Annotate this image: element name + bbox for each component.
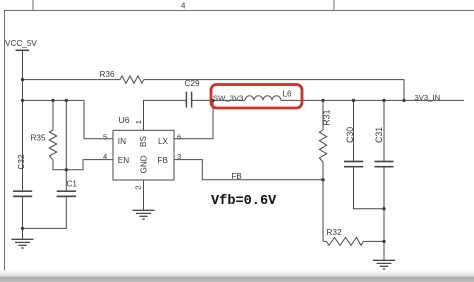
- wire ground stub left: [22, 228, 24, 238]
- svg-text:4: 4: [181, 2, 186, 11]
- wire VCC to left components row: [23, 99, 85, 101]
- highlight box around SW_3V3 / L6: [211, 85, 302, 109]
- wire VCC to R36: [23, 79, 121, 81]
- wire C1 vertical: [65, 100, 67, 190]
- wire LX pin 6 up to SW node: [174, 100, 213, 138]
- svg-text:IN: IN: [118, 137, 126, 146]
- svg-text:Vfb=0.6V: Vfb=0.6V: [211, 194, 277, 209]
- wire R35 bottom to EN step: [53, 160, 113, 170]
- resistor R32: [323, 237, 384, 245]
- wire C29 to inductor: [192, 99, 245, 101]
- window bottom edge band: [0, 271, 474, 282]
- wire C31 bottom down to ground: [383, 167, 385, 260]
- svg-text:U6: U6: [119, 115, 130, 125]
- junction R35 top: [51, 99, 54, 102]
- svg-text:3V3_IN: 3V3_IN: [415, 93, 441, 102]
- wire C30 top stub: [353, 100, 355, 161]
- wire down to IN pin: [84, 100, 113, 138]
- resistor R31: [319, 130, 326, 162]
- wire C31 top stub: [383, 100, 385, 161]
- junction SW node / LX: [211, 99, 214, 102]
- svg-text:FB: FB: [158, 156, 169, 165]
- svg-text:BS: BS: [139, 136, 148, 147]
- svg-text:3: 3: [177, 152, 181, 161]
- capacitor C29: [186, 92, 191, 108]
- power symbol VCC_5V: [16, 49, 30, 51]
- svg-text:6: 6: [177, 132, 181, 141]
- junction VCC/R36: [21, 78, 24, 81]
- svg-text:R35: R35: [31, 133, 46, 142]
- svg-text:R32: R32: [327, 228, 342, 237]
- svg-text:FB: FB: [232, 172, 242, 181]
- capacitor C31: [374, 162, 393, 167]
- svg-text:4: 4: [103, 152, 107, 161]
- svg-text:C30: C30: [345, 127, 355, 143]
- resistor R36: [120, 76, 144, 83]
- svg-text:C29: C29: [185, 79, 200, 88]
- svg-text:C32: C32: [17, 154, 26, 169]
- junction C30 top: [352, 99, 355, 102]
- resistor R35: [49, 130, 56, 160]
- svg-text:5: 5: [103, 132, 107, 141]
- wire FB pin 3: [174, 160, 323, 180]
- ground (left): [12, 239, 34, 248]
- junction C1 top: [65, 99, 68, 102]
- svg-text:SW_3V3: SW_3V3: [213, 94, 243, 103]
- junction C1/EN row: [65, 168, 68, 171]
- svg-text:R31: R31: [322, 110, 332, 126]
- svg-text:LX: LX: [158, 137, 169, 146]
- wire R36 to top-right corner: [144, 80, 404, 101]
- wire VCC stem down to C32: [22, 50, 24, 190]
- wire C32 bottom: [22, 197, 24, 229]
- svg-text:EN: EN: [118, 156, 129, 165]
- capacitor C30: [344, 162, 363, 167]
- wire R35 top stub: [52, 100, 54, 130]
- svg-text:VCC_5V: VCC_5V: [5, 39, 37, 48]
- svg-text:2: 2: [133, 186, 142, 190]
- svg-text:C31: C31: [374, 127, 384, 143]
- junction C30/C31 bottom: [382, 207, 385, 210]
- wire R31 bottom to FB node and down to R32: [322, 162, 324, 241]
- capacitor C32: [13, 191, 32, 196]
- wire BS pin 1 up to C29 line: [144, 100, 187, 130]
- inductor L6: [245, 96, 281, 101]
- svg-text:C1: C1: [67, 179, 78, 188]
- junction ground node left: [21, 227, 24, 230]
- svg-text:GND: GND: [140, 155, 149, 173]
- junction R32/ground: [382, 240, 385, 243]
- wire L6 to 3V3_IN: [281, 99, 464, 101]
- junction C31 top: [382, 99, 385, 102]
- svg-text:1: 1: [134, 120, 143, 124]
- wire C1 bottom to ground node: [23, 197, 67, 229]
- ground (U6): [133, 210, 155, 219]
- junction R31 top: [321, 99, 324, 102]
- svg-text:L6: L6: [283, 90, 293, 99]
- junction VCC/left row: [21, 99, 24, 102]
- junction FB node: [321, 178, 324, 181]
- op-amp U6 body: [113, 130, 174, 180]
- wire R31 top stub: [322, 100, 324, 130]
- svg-text:R36: R36: [100, 70, 115, 79]
- ground (right): [373, 260, 395, 269]
- junction 3V3_IN / R36 feed: [402, 99, 405, 102]
- capacitor C1: [57, 191, 76, 196]
- wire GND pin 2: [143, 180, 145, 210]
- wire C30 bottom: [354, 167, 385, 209]
